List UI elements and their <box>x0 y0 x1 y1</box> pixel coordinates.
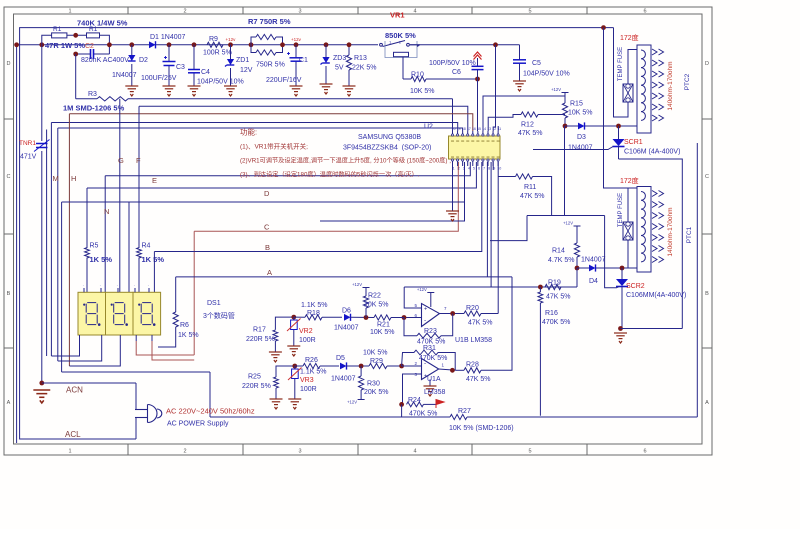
power chevron C6 <box>474 52 482 57</box>
IC U2 bottom pins <box>452 161 454 166</box>
svg-text:470K 5%: 470K 5% <box>542 319 570 326</box>
svg-text:R9: R9 <box>209 36 218 43</box>
svg-text:4: 4 <box>413 449 416 455</box>
svg-text:ACL: ACL <box>65 430 81 439</box>
svg-text:+12V: +12V <box>563 221 573 226</box>
wire bus B riser <box>153 252 155 293</box>
resistor R5 <box>85 248 90 258</box>
varistor TNR1 wire <box>41 45 43 141</box>
pot VR2 <box>291 320 298 330</box>
svg-text:ZD3: ZD3 <box>333 55 346 62</box>
capacitor C1 plates <box>290 57 303 59</box>
svg-text:R20: R20 <box>466 305 479 312</box>
wire bus x58 vertical <box>57 128 59 361</box>
capacitor C3 plates <box>163 61 176 63</box>
wire heater1 bottom <box>622 267 637 269</box>
svg-text:D: D <box>705 61 709 67</box>
wire R30 wires <box>360 366 362 376</box>
svg-text:12: 12 <box>492 127 496 131</box>
wire left rail down <box>16 45 18 443</box>
zener ZD3 <box>322 57 329 63</box>
wire bus A <box>176 276 512 278</box>
wire R22 wires <box>365 288 367 297</box>
node C3 top <box>167 42 172 47</box>
wire pin3 net <box>320 162 465 221</box>
node TNR1 top <box>39 42 44 47</box>
svg-text:+12V: +12V <box>417 287 427 292</box>
svg-text:2: 2 <box>458 167 460 171</box>
svg-text:R3: R3 <box>88 91 97 98</box>
svg-text:7: 7 <box>483 167 485 171</box>
wire R14 top <box>576 226 578 243</box>
svg-text:100R 5%: 100R 5% <box>203 50 232 57</box>
wire net H to pin16 <box>69 114 472 131</box>
svg-text:R1: R1 <box>53 26 62 33</box>
svg-text:220R 5%: 220R 5% <box>246 336 275 343</box>
resistor R26 <box>303 363 320 368</box>
wire stair left arm <box>527 215 552 217</box>
ground C5 <box>513 81 526 91</box>
wire pin1 gnd <box>452 162 454 211</box>
node rail-left <box>14 42 19 47</box>
svg-text:D4: D4 <box>589 278 598 285</box>
svg-text:1N4007: 1N4007 <box>568 145 593 152</box>
node C2 left <box>73 52 78 57</box>
capacitor C6 wires <box>477 58 479 66</box>
ground SCR2 <box>614 333 627 343</box>
wire bus y202 <box>61 202 63 372</box>
resistor R18 <box>305 315 322 320</box>
svg-text:1N4007: 1N4007 <box>112 72 137 79</box>
svg-text:H: H <box>71 174 76 183</box>
svg-text:U1B LM358: U1B LM358 <box>455 337 492 344</box>
ground C3 <box>163 86 176 96</box>
wire R20 wires <box>456 313 464 315</box>
svg-text:+12V: +12V <box>352 282 362 287</box>
svg-text:104P/50V 10%: 104P/50V 10% <box>523 71 570 78</box>
wire U1B minus <box>404 317 422 319</box>
svg-text:▬: ▬ <box>451 139 454 143</box>
resistor R12 <box>521 112 538 117</box>
svg-text:1N4007: 1N4007 <box>581 257 606 264</box>
svg-text:▬: ▬ <box>497 155 500 159</box>
svg-text:C: C <box>7 174 11 180</box>
wire bus G vertical <box>119 99 121 292</box>
resistor R4 <box>137 248 142 258</box>
wire pin14 net <box>483 96 565 131</box>
zener ZD1 wires <box>230 45 232 60</box>
svg-text:20K 5%: 20K 5% <box>364 389 389 396</box>
display DS1 digit1 box <box>78 292 106 335</box>
ground ZD3 <box>320 84 333 94</box>
fuse F1 body <box>623 222 633 240</box>
svg-text:5: 5 <box>528 449 531 455</box>
wire R25 top <box>276 366 295 377</box>
svg-text:SCR1: SCR1 <box>624 139 643 146</box>
capacitor C1 wires <box>295 45 297 58</box>
svg-text:R23: R23 <box>424 328 437 335</box>
svg-text:R12: R12 <box>521 122 534 129</box>
svg-text:5: 5 <box>528 9 531 15</box>
svg-text:6: 6 <box>643 449 646 455</box>
wire pin9 stub <box>492 162 494 170</box>
resistor R6 <box>173 312 178 327</box>
wire rail arrow <box>410 44 420 46</box>
svg-text:▬: ▬ <box>471 155 474 159</box>
svg-text:(2)VR1可调节及设定温度,调节一下温度上升5度, 分10: (2)VR1可调节及设定温度,调节一下温度上升5度, 分10个等级 (150度~… <box>240 157 451 165</box>
svg-text:3个数码管: 3个数码管 <box>203 311 235 320</box>
diode D6 <box>344 314 351 321</box>
capacitor C3 wires <box>168 45 170 61</box>
svg-text:E: E <box>152 176 157 185</box>
capacitor C4 wires <box>193 45 195 69</box>
svg-text:140ohm-170ohm: 140ohm-170ohm <box>667 61 674 110</box>
svg-text:D: D <box>7 61 11 67</box>
wire R26 line <box>295 365 303 367</box>
svg-text:14: 14 <box>482 127 486 131</box>
svg-text:R10: R10 <box>411 72 424 79</box>
wire D3 to heater <box>619 125 638 127</box>
svg-text:172度: 172度 <box>620 176 639 185</box>
heater PTC1 <box>637 187 651 273</box>
capacitor C5 wires <box>519 45 521 60</box>
svg-text:10: 10 <box>497 167 501 171</box>
node R1 mid <box>73 33 78 38</box>
svg-text:470K 5%: 470K 5% <box>419 355 447 362</box>
svg-text:1: 1 <box>68 449 71 455</box>
node ZD1 top <box>228 42 233 47</box>
wire R27 riser right <box>696 143 698 417</box>
wire D2 stub <box>131 45 133 56</box>
svg-text:4: 4 <box>413 9 416 15</box>
wire R18 line <box>294 316 305 318</box>
diode D5 <box>340 363 347 370</box>
svg-text:▬: ▬ <box>466 155 469 159</box>
display DS1 digit3 segments <box>139 303 155 326</box>
resistor R7 bottom loop <box>251 45 256 53</box>
svg-text:10K 5%: 10K 5% <box>410 88 435 95</box>
svg-text:1N4007: 1N4007 <box>331 376 356 383</box>
power R30 <box>358 399 365 401</box>
border frame inner <box>14 14 703 444</box>
wire nest pin2 <box>58 341 102 361</box>
svg-text:▬: ▬ <box>456 139 459 143</box>
switch VR1 arm <box>383 41 406 47</box>
wire pin7 to A <box>486 162 488 277</box>
wire bus B <box>154 162 481 252</box>
ground C1 <box>290 86 303 96</box>
wire ACL to plug <box>135 417 137 439</box>
svg-text:R22: R22 <box>368 293 381 300</box>
resistor R3 <box>97 97 128 101</box>
switch VR1 contacts <box>380 43 383 46</box>
svg-text:2: 2 <box>183 9 186 15</box>
resistor R20 <box>464 311 481 316</box>
fuse F2 body <box>623 84 633 102</box>
resistor R13 <box>346 55 351 70</box>
wire R17 top <box>275 317 293 330</box>
svg-text:B: B <box>705 291 709 297</box>
node U1B out <box>450 311 455 316</box>
wire R29 right <box>387 365 404 367</box>
wire R14 bottom <box>576 257 578 268</box>
svg-text:1.1K 5%: 1.1K 5% <box>300 369 326 376</box>
wire nest pin4 to C <box>136 341 194 355</box>
opamp U1A body <box>422 359 439 380</box>
svg-text:10K 5%: 10K 5% <box>568 110 593 117</box>
wire bus F lower <box>138 258 140 293</box>
svg-text:R29: R29 <box>370 358 383 365</box>
svg-text:19: 19 <box>457 127 461 131</box>
node U1A out <box>450 368 455 373</box>
svg-text:▬: ▬ <box>476 139 479 143</box>
svg-text:VR2: VR2 <box>299 328 313 335</box>
wire net to pin18 <box>58 128 463 131</box>
ground R13 <box>343 86 356 96</box>
ground R17 <box>269 352 282 362</box>
wire bus A to R6 <box>175 277 177 312</box>
svg-text:47K 5%: 47K 5% <box>468 320 493 327</box>
node R7 right <box>280 42 285 47</box>
svg-text:TNR1: TNR1 <box>19 140 36 147</box>
pot VR3 <box>292 369 299 379</box>
resistor R23 <box>417 333 441 338</box>
wire R16 column <box>539 287 541 292</box>
display DS1 digit1 segments <box>84 303 100 326</box>
display DS1 bottom pin stubs <box>79 335 81 341</box>
varistor TNR1 <box>36 143 48 145</box>
svg-text:R19: R19 <box>548 280 561 287</box>
wire U1B power stub <box>430 293 432 308</box>
svg-text:220R 5%: 220R 5% <box>242 383 271 390</box>
node ACN <box>39 381 44 386</box>
svg-text:2: 2 <box>183 449 186 455</box>
resistor R14 <box>574 243 579 257</box>
svg-text:C: C <box>705 174 709 180</box>
diode D4 <box>589 265 596 272</box>
svg-text:+12V: +12V <box>347 400 357 405</box>
wire R24 right <box>424 403 437 405</box>
svg-text:A: A <box>267 268 272 277</box>
svg-text:R28: R28 <box>466 362 479 369</box>
svg-text:R16: R16 <box>545 310 558 317</box>
border frame outer <box>4 7 712 455</box>
svg-text:▬: ▬ <box>451 155 454 159</box>
wire R27 riser left <box>209 372 211 417</box>
svg-text:D6: D6 <box>342 308 351 315</box>
resistor R21 <box>374 315 391 320</box>
svg-text:PTC2: PTC2 <box>684 73 691 90</box>
wire ACN <box>42 382 136 384</box>
wire U1A out <box>439 369 456 370</box>
wire pin15 to C6 node <box>477 79 479 131</box>
zener ZD1 <box>227 59 234 65</box>
wire pin2 riser <box>457 162 459 170</box>
wire R11 right <box>533 177 605 216</box>
svg-text:D3: D3 <box>577 134 586 141</box>
svg-text:VR3: VR3 <box>300 377 314 384</box>
svg-text:1K 5%: 1K 5% <box>90 255 113 264</box>
svg-text:47R 1W 5%: 47R 1W 5% <box>45 41 85 50</box>
svg-text:▬: ▬ <box>476 155 479 159</box>
wire R12 right <box>538 114 565 116</box>
resistor R28 <box>464 368 481 373</box>
svg-text:1: 1 <box>453 167 455 171</box>
svg-text:9: 9 <box>493 167 495 171</box>
node R13 top <box>347 42 352 47</box>
svg-text:R11: R11 <box>524 184 536 191</box>
resistor R9 <box>207 42 223 47</box>
svg-text:1K 5%: 1K 5% <box>178 332 199 339</box>
node R19 left <box>538 285 543 290</box>
svg-text:R18: R18 <box>307 310 320 317</box>
node C6 bottom <box>475 77 480 82</box>
svg-text:5: 5 <box>473 167 475 171</box>
svg-text:▬: ▬ <box>492 155 495 159</box>
resistor R25 <box>274 377 279 388</box>
svg-text:C106MM(4A-400V): C106MM(4A-400V) <box>626 292 686 299</box>
resistor R17 <box>273 330 278 341</box>
svg-text:3: 3 <box>298 9 301 15</box>
wire PTC1 fuse bottom <box>627 240 629 268</box>
wire PTC1 fuse top <box>627 188 629 222</box>
svg-text:R26: R26 <box>305 357 318 364</box>
resistor R15 <box>562 103 567 118</box>
wire bus F vertical <box>138 106 140 248</box>
wire R1 mid <box>67 34 87 36</box>
svg-text:▬: ▬ <box>461 155 464 159</box>
svg-text:R30: R30 <box>367 381 380 388</box>
svg-text:A: A <box>7 400 11 406</box>
capacitor C5 plates <box>513 59 526 61</box>
svg-text:(3)、到达设定（设定180度）温度时数码的5秒闪烁一次（亮: (3)、到达设定（设定180度）温度时数码的5秒闪烁一次（亮/灭）. <box>240 171 420 179</box>
svg-text:AC POWER Supply: AC POWER Supply <box>167 421 229 428</box>
capacitor C6 plates <box>472 65 484 67</box>
wire PTC1 feed <box>604 28 638 188</box>
svg-text:▬: ▬ <box>481 155 484 159</box>
svg-text:12V: 12V <box>240 67 253 74</box>
resistor R31 <box>414 350 438 355</box>
svg-text:4.7K 5%: 4.7K 5% <box>548 257 574 264</box>
wire bus N vertical <box>104 176 106 293</box>
svg-text:R4: R4 <box>142 243 151 250</box>
power U1B <box>427 292 434 294</box>
ground VR2 <box>287 346 300 356</box>
svg-text:功能:: 功能: <box>240 127 257 137</box>
node R22 bottom <box>364 315 369 320</box>
svg-text:750R 5%: 750R 5% <box>256 62 285 69</box>
svg-text:▬: ▬ <box>497 139 500 143</box>
wire ACL left rail <box>20 28 614 439</box>
resistor R22 <box>363 296 368 308</box>
svg-text:+: + <box>424 307 427 313</box>
display DS1 digit2 segments <box>111 303 127 326</box>
resistor R24 <box>407 402 424 407</box>
svg-text:PTC1: PTC1 <box>686 226 693 243</box>
wire D4 line <box>577 267 589 269</box>
wire bus D riser R5 <box>86 188 88 248</box>
resistor R10 <box>411 76 426 81</box>
node VR3 top <box>292 364 297 369</box>
resistor R1 left wire <box>42 35 52 45</box>
wire U1A minus <box>402 365 422 367</box>
node U1A minus <box>399 364 404 369</box>
svg-text:▬: ▬ <box>471 139 474 143</box>
svg-text:·: · <box>83 283 84 288</box>
svg-text:1: 1 <box>68 9 71 15</box>
wire nest pin1 to M <box>51 341 79 356</box>
resistor R1 box b <box>87 33 100 38</box>
wire R10 right <box>426 78 478 80</box>
node D3 left <box>563 124 568 129</box>
svg-text:C6: C6 <box>452 69 461 76</box>
ground U1A <box>424 386 437 396</box>
svg-text:R17: R17 <box>253 327 266 334</box>
svg-text:10K 5%: 10K 5% <box>363 350 388 357</box>
svg-text:47K 5%: 47K 5% <box>520 193 545 200</box>
IC U2 body <box>449 136 501 159</box>
display DS1 digit3 box <box>133 292 161 335</box>
svg-text:·: · <box>134 283 135 288</box>
wire hyst down to plus <box>404 287 421 308</box>
svg-text:A: A <box>705 400 709 406</box>
node C5 top <box>493 42 498 47</box>
svg-text:F: F <box>136 156 141 165</box>
svg-text:SAMSUNG Q5380B: SAMSUNG Q5380B <box>358 134 421 141</box>
wire pin12 to rail <box>493 45 495 131</box>
power R22 <box>363 287 370 289</box>
wire pin8 to hyst <box>490 162 492 287</box>
svg-text:R31: R31 <box>423 345 436 352</box>
svg-text:4: 4 <box>468 167 470 171</box>
svg-text:(1)、VR1带开关机开关;: (1)、VR1带开关机开关; <box>240 142 308 151</box>
svg-text:C106M (4A-400V): C106M (4A-400V) <box>624 149 680 156</box>
wire bus M vertical <box>50 123 52 357</box>
thyristor SCR1 <box>618 126 620 139</box>
resistor R7 top loop <box>251 37 256 45</box>
diode D2 <box>128 55 135 61</box>
wire PTC2 fuse bracket <box>614 28 629 117</box>
svg-text:·: · <box>117 283 118 288</box>
svg-text:R7 750R 5%: R7 750R 5% <box>248 17 291 26</box>
wire R6 bottom <box>158 327 176 347</box>
wire bus C riser <box>193 231 195 355</box>
svg-text:ZD1: ZD1 <box>236 57 249 64</box>
svg-text:820nK AC400V: 820nK AC400V <box>81 57 129 64</box>
wire bus D <box>87 162 476 188</box>
IC U2 top pins <box>452 131 454 134</box>
svg-text:B: B <box>7 291 11 297</box>
node R7 left <box>249 42 254 47</box>
svg-text:R5: R5 <box>90 243 99 250</box>
wire R10 left <box>403 78 411 80</box>
svg-text:R27: R27 <box>458 408 471 415</box>
svg-text:D1 1N4007: D1 1N4007 <box>150 34 186 41</box>
svg-text:▬: ▬ <box>461 139 464 143</box>
wire R24 to R27 <box>401 404 403 417</box>
display DS1 digit2 box <box>106 292 134 335</box>
svg-text:G: G <box>118 156 124 165</box>
svg-text:+12v: +12v <box>226 37 237 42</box>
svg-text:220UF/16V: 220UF/16V <box>266 77 302 84</box>
svg-text:C: C <box>264 223 270 232</box>
wire bus H vertical <box>68 114 70 366</box>
svg-text:D: D <box>264 189 270 198</box>
display DS1 top pin stubs <box>83 288 85 292</box>
svg-text:▬: ▬ <box>486 155 489 159</box>
svg-text:ACN: ACN <box>66 386 83 395</box>
frame zone ticks <box>127 7 129 14</box>
